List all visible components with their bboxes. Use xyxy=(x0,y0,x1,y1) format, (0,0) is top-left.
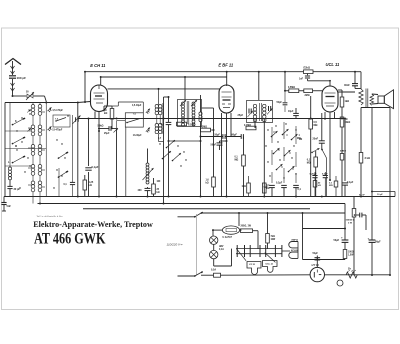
svg-text:2MΩ: 2MΩ xyxy=(305,95,310,97)
capacitor 0,1 mid xyxy=(166,122,172,124)
wire switch rail x46 xyxy=(45,103,47,197)
resistor 0,1M UCL xyxy=(314,157,318,167)
svg-text:kΩ: kΩ xyxy=(157,192,160,194)
wire UCL col xyxy=(338,90,343,197)
wire primary bottom down xyxy=(360,108,362,153)
wire switched bus bottom xyxy=(201,274,310,276)
wire 200ohm right xyxy=(253,231,259,249)
wire heater chain out right xyxy=(282,250,290,252)
capacitor 30pF xyxy=(7,186,12,188)
wire lamp branch top xyxy=(212,230,214,236)
svg-text:Elektro-Apparate-Werke, Trepto: Elektro-Apparate-Werke, Treptow xyxy=(33,220,153,229)
svg-text:50pF: 50pF xyxy=(215,134,221,136)
tuner box left edge xyxy=(4,103,6,197)
wire UCL anode xyxy=(338,91,355,93)
wire between lamps xyxy=(213,244,215,250)
tube EBF11 pin 2 xyxy=(226,113,228,141)
heater UCL11 element xyxy=(263,261,278,273)
tuner tick wires xyxy=(28,110,45,187)
svg-text:90pF: 90pF xyxy=(232,134,238,136)
IF1 secondary coil xyxy=(155,124,162,134)
capacitor 50uF 1 xyxy=(342,240,349,242)
IF transformer 3 box xyxy=(247,101,273,123)
capacitor 90pF IF3 out xyxy=(283,91,288,112)
wire bus A drop xyxy=(360,72,362,89)
label 50pF xyxy=(215,134,221,136)
tuner inner wire 3 xyxy=(5,165,31,167)
svg-text:110/220 V≂: 110/220 V≂ xyxy=(167,242,183,246)
wire triode anode link xyxy=(112,102,143,113)
contact dots mid xyxy=(159,143,186,166)
wire tuner internal 3 xyxy=(58,168,60,197)
label 1k IF3 bottom xyxy=(242,186,247,188)
coil bank column A xyxy=(31,105,35,192)
capacitor 40nF xyxy=(352,72,361,89)
svg-text:4,5-40μF: 4,5-40μF xyxy=(132,104,142,107)
label 40k UCL xyxy=(318,182,321,188)
mains switch blade bottom xyxy=(195,271,203,276)
wire IF3 feed xyxy=(258,72,260,100)
wire UY top xyxy=(316,259,318,268)
label 25pF xyxy=(238,114,244,117)
tube EBF11 grids xyxy=(222,92,232,108)
svg-text:H8V: H8V xyxy=(219,246,224,248)
label 1M band xyxy=(297,135,301,140)
label fuse xyxy=(223,237,233,239)
label 7k 10W xyxy=(271,236,277,241)
wire vert x200 top xyxy=(200,95,202,119)
tube UCL11 pin 3 xyxy=(334,112,336,118)
tube ECH11 envelope xyxy=(91,85,108,112)
svg-text:10W: 10W xyxy=(271,239,277,241)
label 50k xyxy=(98,125,104,128)
antenna lead wire xyxy=(12,61,14,96)
heater bypass bars xyxy=(237,245,282,257)
label 1k col xyxy=(345,100,350,103)
label 50uF 1 xyxy=(334,236,344,243)
wire power right edge xyxy=(302,212,304,260)
label 0,1uF AVC xyxy=(92,165,99,169)
svg-text:UCL 11: UCL 11 xyxy=(266,264,274,266)
wire UY right xyxy=(325,274,391,276)
wire x354 lower xyxy=(353,217,355,275)
switch contact mid 1 xyxy=(162,151,171,159)
ground hook left xyxy=(2,210,6,212)
wire osc coil bottom xyxy=(147,187,149,197)
label 25uF xyxy=(104,133,110,135)
label 0,25uF UCL xyxy=(310,174,318,176)
label lamp HV xyxy=(219,246,224,251)
resistor 0,1k IF3 bottom xyxy=(263,183,267,193)
resistor 3k xyxy=(359,153,363,164)
label 0,1uF bottom xyxy=(298,188,302,191)
svg-text:0,1μF: 0,1μF xyxy=(347,181,354,184)
svg-text:4,5-170pF: 4,5-170pF xyxy=(52,109,63,112)
heater EBF11 element xyxy=(289,242,298,248)
label 50uF 2 xyxy=(368,237,382,244)
wire heater staples link xyxy=(297,242,299,259)
svg-text:50kΩ: 50kΩ xyxy=(98,125,104,128)
wire resistor 1,25k xyxy=(84,175,86,197)
capacitor 0,25uF UCL xyxy=(312,172,317,181)
label 1nF xyxy=(299,79,304,81)
label 90pF xyxy=(232,134,238,136)
wire EBF cath down xyxy=(226,141,228,197)
transformer primary winding xyxy=(359,89,363,105)
svg-text:+: + xyxy=(341,236,343,240)
wire 7k xyxy=(267,212,269,249)
svg-text:40nF: 40nF xyxy=(344,84,350,87)
wire lamp bottom xyxy=(214,249,232,266)
svg-text:kΩ: kΩ xyxy=(104,112,107,115)
tuner inner wire 2 xyxy=(5,148,46,150)
label 5nF bottom xyxy=(264,186,269,189)
band switch arrow F xyxy=(276,164,283,170)
wire mid vertical 1 xyxy=(163,97,165,204)
svg-text:+: + xyxy=(368,237,370,241)
capacitor 50uF 2 xyxy=(369,240,376,242)
IF1 core xyxy=(162,103,164,134)
resistor 1,6k xyxy=(212,177,216,187)
choke diode line xyxy=(199,112,202,122)
resistor 40k UCL xyxy=(313,181,317,197)
wire x372 bottom xyxy=(371,242,373,276)
resistor 1k UCL col xyxy=(340,97,344,107)
arrow 25uF xyxy=(114,128,119,133)
label 25nF xyxy=(313,138,319,141)
svg-text:1kΩ: 1kΩ xyxy=(242,186,247,188)
switch arrow UCL xyxy=(311,148,319,153)
wire tuner internal 1 xyxy=(32,197,34,204)
label 50nF UY xyxy=(313,253,319,255)
wire 3k down xyxy=(360,163,362,197)
wire 0,1M right EBF xyxy=(243,137,245,197)
label 110/220V mains xyxy=(167,242,183,246)
capacitor 430 osc xyxy=(145,188,151,190)
label 5nF left xyxy=(7,205,12,208)
transformer secondary winding xyxy=(370,94,374,105)
heater diagonal link 1 xyxy=(236,249,246,261)
antenna lead arrowheads xyxy=(11,66,15,91)
label 100ohm xyxy=(348,252,354,257)
band switch arrow left 1 xyxy=(12,118,26,126)
svg-text:25pF: 25pF xyxy=(238,114,244,117)
wire x345 to wire259 xyxy=(344,259,346,260)
resistor 1,25k xyxy=(83,180,87,190)
band switch arrow left 3 xyxy=(12,156,26,164)
label UCL 11 xyxy=(326,62,340,67)
band switch dots xyxy=(265,123,296,178)
capacitor 90pF xyxy=(241,134,243,139)
resistor 2M row xyxy=(304,89,313,93)
svg-text:50nF: 50nF xyxy=(211,144,217,147)
svg-text:3 kΩ: 3 kΩ xyxy=(365,157,370,160)
band switch arrow C xyxy=(291,134,298,140)
IF3 primary coil xyxy=(253,104,256,122)
wire mid vertical 2 xyxy=(164,96,170,197)
antenna xyxy=(5,59,21,65)
tube ECH11 pin 2 xyxy=(98,112,100,132)
svg-text:430: 430 xyxy=(138,189,143,192)
wire x116 top link xyxy=(117,121,126,129)
wire secondary to speaker xyxy=(372,94,378,104)
capacitor 25nF UCL xyxy=(319,113,325,149)
IF2 trimmer 2 xyxy=(191,100,197,106)
wire band switch vert 1 xyxy=(271,127,273,183)
svg-text:kΩ: kΩ xyxy=(318,185,321,187)
svg-text:13-40μF: 13-40μF xyxy=(133,134,142,137)
band switch arrow D xyxy=(273,148,280,154)
svg-text:Teil 1 u. alt Konto-Nr. d. Ers: Teil 1 u. alt Konto-Nr. d. Ers. xyxy=(37,215,64,218)
wire vert x200 bottom xyxy=(200,122,202,197)
label MW xyxy=(15,145,17,148)
heater diagonal link 2 xyxy=(265,253,276,263)
switch contact mid 3 xyxy=(166,140,175,148)
fuse holder oval xyxy=(222,226,239,234)
capacitor 50nF UY bars xyxy=(315,258,321,260)
label 0,1M IF2 xyxy=(188,124,195,127)
svg-text:UY 11: UY 11 xyxy=(249,264,256,266)
wire bottom bus 1 xyxy=(4,196,395,198)
wire left coil feed xyxy=(9,103,11,168)
label 0,1 tuner xyxy=(64,184,68,186)
capacitor 100pF antenna xyxy=(9,76,16,78)
capacitor 0,1 tuner xyxy=(70,182,75,184)
wire 0,5M xyxy=(310,96,312,197)
label 47 mid xyxy=(158,137,162,140)
svg-text:kΩ: kΩ xyxy=(206,183,209,185)
IF2 core xyxy=(187,101,189,124)
maker title xyxy=(33,220,153,229)
svg-text:5nF: 5nF xyxy=(7,205,12,208)
label 0,1 mid xyxy=(161,123,165,126)
label ECH 11 xyxy=(90,63,106,68)
svg-text:7kΩ: 7kΩ xyxy=(271,236,276,238)
wire diode row 2 xyxy=(225,136,241,138)
capacitor 0,1uF x345 xyxy=(342,183,348,197)
label 7,5 xyxy=(55,119,59,121)
tube UCL11 pin 1 xyxy=(324,112,326,120)
tube UY11 electrodes xyxy=(314,270,321,278)
wire detector feed xyxy=(284,72,286,92)
wire diode row xyxy=(201,136,223,138)
svg-text:kΩ: kΩ xyxy=(266,188,269,190)
IF3 core xyxy=(260,103,262,121)
label 25k xyxy=(157,189,160,194)
resistor 100ohm xyxy=(343,250,347,259)
IF3 trimmer 2 xyxy=(267,106,272,115)
band switch arrow left 2 xyxy=(12,137,26,145)
capacitor 5nF left end xyxy=(1,197,6,212)
svg-text:15-470pF: 15-470pF xyxy=(52,129,63,132)
coil bank waists xyxy=(33,103,40,197)
band switch arrow A xyxy=(271,131,278,137)
svg-text:ECH11: ECH11 xyxy=(291,250,299,252)
svg-text:100 pF: 100 pF xyxy=(17,76,27,80)
IF2 secondary coil xyxy=(182,114,185,126)
label 200ohm xyxy=(241,226,252,228)
resistor 7k 10W xyxy=(266,234,270,244)
dial lamp 2 xyxy=(210,250,218,258)
label 80k col xyxy=(345,118,351,124)
switch box IF1 xyxy=(125,113,143,127)
wire tuner internal 2 xyxy=(39,197,41,204)
svg-text:50μF: 50μF xyxy=(375,241,381,244)
capacitor 0,5uF UCL xyxy=(323,172,328,197)
tube UCL11 pin 2 xyxy=(329,112,331,181)
wire top bus B xyxy=(101,76,227,78)
bus junction dots xyxy=(39,196,362,205)
wire mains switch link xyxy=(195,214,197,275)
svg-text:EBF11: EBF11 xyxy=(292,240,299,242)
trimmer arrow 1 xyxy=(48,107,52,112)
svg-text:10 μF: 10 μF xyxy=(377,194,383,196)
svg-text:1,5W: 1,5W xyxy=(348,255,354,257)
label EBF 11 xyxy=(218,62,233,67)
wire fuse left xyxy=(212,229,222,231)
wire IF3 bottom1 xyxy=(254,119,256,129)
svg-text:MΩ: MΩ xyxy=(307,162,311,165)
wire switched bus top xyxy=(201,212,345,214)
svg-text:1kΩ: 1kΩ xyxy=(345,100,350,103)
label 13-40uF xyxy=(133,134,142,137)
contact dots tuner xyxy=(16,113,68,188)
speaker xyxy=(378,90,394,109)
svg-text:0,2μF: 0,2μF xyxy=(276,182,283,185)
wire grid line vertical xyxy=(77,103,79,197)
wire IF1 left down xyxy=(125,127,127,196)
capacitor 5nF bottom xyxy=(269,185,275,196)
svg-text:kΩ: kΩ xyxy=(89,184,92,187)
label M2 xyxy=(299,139,303,141)
svg-text:U 2x70 P: U 2x70 P xyxy=(223,237,233,239)
lamp bottom right xyxy=(337,280,343,286)
IF3 trimmer 1 xyxy=(248,109,253,118)
svg-text:50μF: 50μF xyxy=(313,253,319,255)
switch detail box xyxy=(53,115,70,127)
band switch arrow B xyxy=(282,129,289,135)
resistor 0,1M right of EBF xyxy=(242,155,246,166)
svg-text:0,5μF: 0,5μF xyxy=(322,174,328,176)
label heater UY11 xyxy=(249,264,256,266)
tube EBF11 envelope xyxy=(219,85,234,113)
wire y228 link xyxy=(303,228,347,230)
IF1 trimmer bottom xyxy=(146,127,150,132)
wire AVC vertical xyxy=(88,119,90,197)
svg-text:0,25μF: 0,25μF xyxy=(310,174,318,176)
wire secondary bottom down xyxy=(371,108,373,241)
resistor 80k UCL col xyxy=(340,117,344,127)
capacitor 50nF right xyxy=(293,108,299,119)
wire IF2 feed xyxy=(184,77,186,100)
wire top bus A xyxy=(85,71,361,73)
capacitor 0,1uF bottom xyxy=(293,185,299,196)
label 30k xyxy=(104,109,107,115)
label heater UCL11 xyxy=(266,264,274,266)
label E2k xyxy=(304,67,310,70)
wire IF1 secondary bottom xyxy=(159,134,164,142)
IF transformer 2 box xyxy=(178,100,202,127)
arrow through osc coil xyxy=(143,168,154,180)
tube EBF11 pin 1 xyxy=(221,113,223,197)
capacitor 25uF xyxy=(109,126,111,131)
tube UY11 envelope xyxy=(310,267,324,281)
capacitor 50pF xyxy=(223,134,225,139)
tube EBF11 top wire xyxy=(108,88,220,90)
label LW xyxy=(8,161,10,164)
band switch arrow right low 2 xyxy=(58,171,69,178)
svg-text:25μF: 25μF xyxy=(104,133,110,135)
fine print note xyxy=(37,215,64,218)
label UY11 xyxy=(312,263,320,267)
wire right edge vertical xyxy=(389,108,391,276)
resistor 0,2M EBF xyxy=(201,128,214,132)
resistor 100-50ohm xyxy=(352,209,356,218)
coil tap arrow 1 xyxy=(27,110,31,113)
wire ECH cathode xyxy=(98,130,100,197)
tube EBF11 pin 3 xyxy=(230,113,232,137)
label 0,1uF x345 xyxy=(347,181,354,184)
wire band switch vert 2 xyxy=(283,122,285,183)
IF1 trimmer top xyxy=(146,109,150,114)
wire cathode row xyxy=(98,128,109,130)
wire mains stub top xyxy=(178,216,196,218)
wire secondary return xyxy=(371,191,395,197)
label 40nF xyxy=(344,84,350,87)
tube ECH11 grid left wire xyxy=(84,71,86,102)
resistor 0,1M IF3 xyxy=(246,126,256,130)
label 2M xyxy=(305,95,310,97)
wire resistor row xyxy=(285,90,322,92)
resistor 0,1M IF2 xyxy=(177,122,187,126)
resistor 1k IF3 bottom xyxy=(247,176,251,197)
wire coil to cap xyxy=(9,180,11,197)
svg-text:MΩ: MΩ xyxy=(329,185,333,187)
wire 25k osc xyxy=(153,178,155,197)
resistor 0,1M UCL col xyxy=(340,154,344,161)
label KW xyxy=(15,120,17,123)
resistor 0,5M xyxy=(309,119,313,129)
svg-text:100/50 Ω: 100/50 Ω xyxy=(346,220,355,222)
wire antenna to trimmer xyxy=(13,95,27,97)
tube ECH11 top stub xyxy=(100,76,102,86)
svg-text:0,5MΩ: 0,5MΩ xyxy=(288,87,295,89)
tube EBF11 top stub xyxy=(226,72,228,86)
wire switch rail x70 xyxy=(72,115,74,197)
wire bottom bus 3 xyxy=(83,208,310,210)
capacitor 50nF UY xyxy=(316,256,318,263)
label 50nF x354 xyxy=(359,194,365,196)
band switch arrow right low 1 xyxy=(58,152,69,159)
IF3 secondary coil xyxy=(263,104,266,122)
IF1 coil link xyxy=(157,115,160,124)
svg-text:0,5A: 0,5A xyxy=(211,269,216,272)
wire IF1 primary top xyxy=(158,88,160,105)
fuse 0,5A xyxy=(214,273,221,277)
wire x116 down xyxy=(116,129,118,197)
svg-text:10μF: 10μF xyxy=(288,111,294,113)
resistor 25k osc xyxy=(152,184,156,194)
wire vert x213 xyxy=(213,108,215,197)
label 100pF xyxy=(17,76,27,80)
svg-text:1nF: 1nF xyxy=(299,79,304,81)
capacitor 50nF x354 xyxy=(354,213,366,218)
wire x345 upper xyxy=(344,118,346,182)
label 10uF right xyxy=(377,194,383,196)
trimmer arrow 2 xyxy=(48,126,52,131)
label 0,5M row xyxy=(288,87,295,89)
heater ECH11 element xyxy=(289,252,298,258)
